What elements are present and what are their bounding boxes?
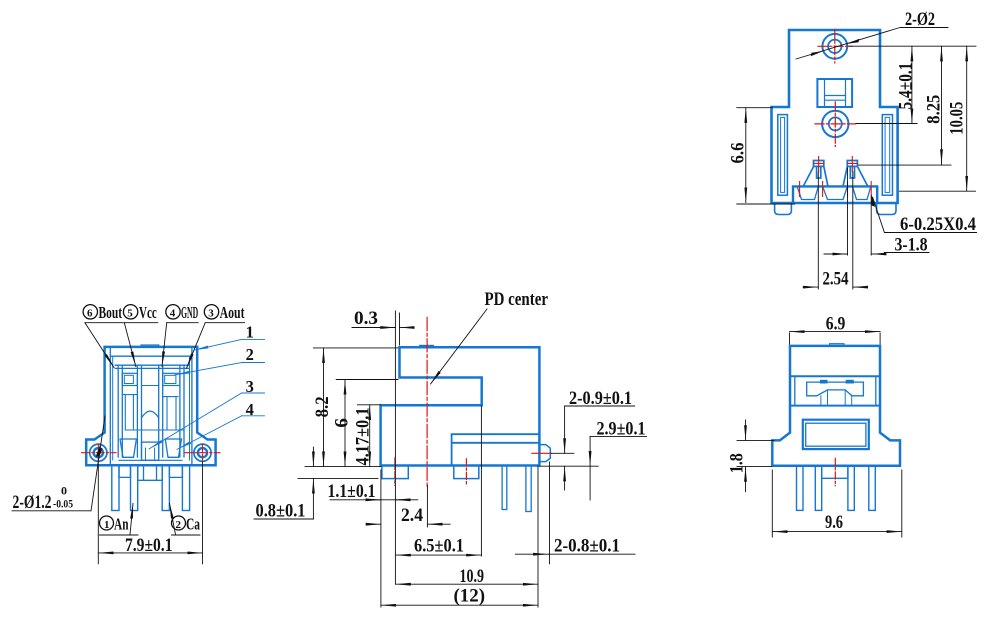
- view C right side rail slot: [882, 115, 892, 196]
- svg-text:Vcc: Vcc: [139, 303, 157, 322]
- svg-text:2-Ø1.2: 2-Ø1.2: [13, 492, 52, 513]
- dimension 9.6: [772, 531, 902, 533]
- view A bottom inner line: [119, 459, 182, 461]
- dimension 8.2: [323, 348, 325, 467]
- view A terminal column 1: [118, 365, 122, 457]
- view B barrel flange lines: [452, 434, 540, 465]
- view A red crosshair left hole: [82, 444, 117, 462]
- view A top small tab: [141, 345, 159, 347]
- dimension 3-1.8: [824, 253, 848, 255]
- svg-text:Bout: Bout: [99, 303, 123, 322]
- view B foot 2: [454, 466, 479, 479]
- view C rear-view body outline: [772, 30, 898, 203]
- label pins top underlines: [85, 322, 245, 324]
- svg-text:8.25: 8.25: [923, 95, 944, 124]
- view A upper right contact box: [163, 373, 180, 385]
- view B top small tab: [420, 345, 434, 347]
- extension line PD center lower: [426, 485, 428, 527]
- view D bottom window inner: [806, 423, 866, 446]
- view D pin 1: [797, 466, 804, 511]
- view B pin 1: [502, 466, 507, 510]
- extension line barrel right: [537, 466, 539, 607]
- view D center tab: [822, 466, 848, 479]
- view A center tab: [138, 465, 163, 480]
- view D bottom-view body outline: [772, 346, 900, 466]
- svg-text:1.8: 1.8: [726, 453, 747, 473]
- dimension 10.05: [966, 46, 968, 191]
- svg-text:6.5±0.1: 6.5±0.1: [414, 536, 464, 557]
- dimension 6: [344, 380, 346, 467]
- svg-text:5.4±0.1: 5.4±0.1: [896, 63, 917, 110]
- view D spring bowl profile: [807, 382, 864, 396]
- view C red centerline lower hole: [815, 102, 856, 147]
- view C right solder tooth: [843, 161, 868, 187]
- view A front-view body outline: [86, 347, 215, 465]
- dimension 8.25: [941, 46, 943, 164]
- view C left solder tooth: [803, 161, 828, 187]
- label 1 An: [100, 515, 129, 534]
- svg-text:10.05: 10.05: [947, 102, 968, 135]
- view A foot left: [119, 465, 131, 477]
- dimension 6.9: [790, 331, 881, 333]
- view A inner wall second lines: [113, 356, 190, 460]
- svg-text:2-0.8±0.1: 2-0.8±0.1: [554, 536, 620, 557]
- dimension 4.17±0.1: [369, 405, 371, 467]
- leader pin4: [162, 323, 167, 367]
- view C red centerline top hole: [818, 30, 852, 64]
- leader 2-Ø1.2: [91, 416, 105, 511]
- leader pin3: [187, 323, 206, 368]
- view A right ear circles: [194, 444, 211, 461]
- dimension 6 extension: [336, 379, 398, 381]
- view C left side rail slot: [778, 115, 788, 196]
- view A inner wall: [110, 347, 192, 465]
- view A center dome: [142, 411, 159, 418]
- svg-text:(12): (12): [454, 586, 486, 607]
- svg-text:2-Ø2: 2-Ø2: [905, 9, 935, 30]
- svg-text:1.1±0.1: 1.1±0.1: [328, 481, 376, 502]
- view A center channel lines: [123, 386, 178, 397]
- view A upper left contact box: [122, 373, 137, 385]
- svg-text:0: 0: [61, 483, 67, 497]
- view A pin 4: [182, 465, 189, 510]
- dimension extension lines right side: [849, 46, 977, 191]
- view D pin 3: [848, 466, 854, 511]
- svg-text:2: 2: [176, 519, 182, 531]
- svg-text:6.6: 6.6: [727, 143, 748, 164]
- dimension 1.8 extension lines: [737, 440, 774, 466]
- view A red crosshair right hole: [185, 444, 220, 462]
- svg-text:2: 2: [246, 345, 254, 364]
- view D top small tab: [830, 344, 844, 346]
- dimension 2.54: [803, 286, 818, 288]
- view C top hole Ø2: [828, 40, 841, 53]
- view B red centerline foot2: [465, 459, 467, 486]
- view A lower right latch: [165, 439, 181, 457]
- label pins top row: [83, 303, 245, 322]
- view C solder teeth shelf: [793, 186, 877, 203]
- dimension 1.8 arrows: [745, 420, 747, 440]
- view B red PD centerline: [426, 318, 428, 489]
- view C latch inner lines: [825, 79, 846, 107]
- label 2 Ca: [172, 515, 201, 534]
- view C left bottom foot: [775, 203, 792, 215]
- view B pin 2: [526, 466, 531, 512]
- view A left ear circles: [90, 444, 107, 461]
- extension lines bushing center and pcb: [540, 453, 599, 466]
- view D spring band horizontal: [807, 381, 864, 383]
- view A terminal column 2: [137, 365, 141, 457]
- view B side-view body outline: [381, 347, 540, 465]
- dimension 6.6 extension lines: [737, 108, 795, 204]
- view A pin 3 cathode: [162, 465, 169, 510]
- view C latch block: [817, 79, 852, 107]
- svg-text:1: 1: [246, 322, 254, 341]
- svg-text:2.4: 2.4: [401, 505, 423, 526]
- svg-text:6: 6: [87, 308, 93, 320]
- view D red centerline: [834, 458, 836, 485]
- view A pin 2 anode: [131, 465, 138, 510]
- svg-text:2.54: 2.54: [823, 269, 849, 290]
- svg-text:9.6: 9.6: [825, 512, 843, 533]
- view C lower hole Ø2: [829, 117, 842, 130]
- extension line body left top: [399, 313, 401, 345]
- svg-text:-0.05: -0.05: [53, 497, 73, 511]
- view D pin 4: [869, 466, 876, 511]
- svg-text:Ca: Ca: [186, 515, 200, 534]
- view B foot 1: [382, 466, 408, 479]
- svg-text:3: 3: [208, 308, 214, 320]
- dimension 6.6: [745, 108, 747, 203]
- view D spring band inner verticals: [795, 376, 876, 405]
- extension line body bottom-left corner: [380, 470, 382, 607]
- view C lower boss circle: [822, 111, 848, 137]
- leader pin5: [124, 323, 136, 367]
- svg-text:6-0.25X0.4: 6-0.25X0.4: [900, 214, 976, 235]
- view A center bottom box: [142, 442, 159, 460]
- dimension 9.6 extension lines: [772, 470, 902, 537]
- dimension 7.9±0.1 extensions: [98, 462, 202, 564]
- view B red centerline foot1: [394, 458, 396, 485]
- svg-text:0.8±0.1: 0.8±0.1: [256, 501, 306, 522]
- svg-text:An: An: [114, 515, 129, 534]
- svg-text:6.9: 6.9: [826, 314, 846, 335]
- svg-text:0.3: 0.3: [354, 308, 378, 329]
- dimension 4.17±0.1 extension: [357, 404, 380, 406]
- svg-text:GND: GND: [181, 303, 198, 322]
- view A pin 1: [112, 465, 119, 510]
- extension line notch corner: [480, 406, 482, 556]
- dimension 2.54 extension lines: [818, 172, 853, 289]
- svg-text:4.17±0.1: 4.17±0.1: [352, 408, 373, 466]
- view D spring band tabs: [820, 380, 828, 384]
- view C red tick marks on teeth: [814, 157, 858, 172]
- view C top mounting boss circle: [822, 34, 847, 59]
- view A lower left latch: [120, 439, 136, 457]
- view B bushing: [539, 445, 550, 462]
- dimension 6.9 extension lines: [790, 333, 881, 344]
- leader pin6: [85, 323, 114, 368]
- svg-text:1: 1: [104, 519, 110, 531]
- extension line pin1 center long: [394, 311, 396, 584]
- view B red bushing centerline: [532, 452, 551, 454]
- view A inner uprights: [125, 396, 184, 431]
- svg-text:3-1.8: 3-1.8: [895, 235, 928, 256]
- dimension 5.4±0.1: [911, 46, 913, 123]
- view A terminal column 3: [159, 365, 163, 457]
- svg-text:PD center: PD center: [485, 289, 549, 310]
- view D bottom window outer: [803, 420, 869, 449]
- view C right bottom foot: [877, 203, 896, 215]
- view C red tick marks on shelf: [800, 182, 872, 197]
- svg-text:8.2: 8.2: [312, 396, 333, 417]
- view D pin 2: [815, 466, 821, 511]
- view C shelf bowl cutouts: [798, 188, 871, 200]
- view A terminal column 4: [180, 365, 184, 457]
- svg-text:4: 4: [170, 308, 176, 320]
- extension line bushing right: [549, 462, 551, 564]
- view D upper section split line: [790, 376, 880, 405]
- svg-text:6: 6: [332, 418, 353, 428]
- svg-text:5: 5: [127, 308, 133, 320]
- dimension 3-1.8 extension lines: [848, 168, 872, 255]
- view A shelf line: [115, 365, 189, 368]
- view D spring lower verticals: [821, 390, 852, 406]
- view A foot right: [169, 465, 182, 477]
- dimension 8.2 extension: [305, 348, 398, 467]
- svg-text:Aout: Aout: [220, 303, 245, 322]
